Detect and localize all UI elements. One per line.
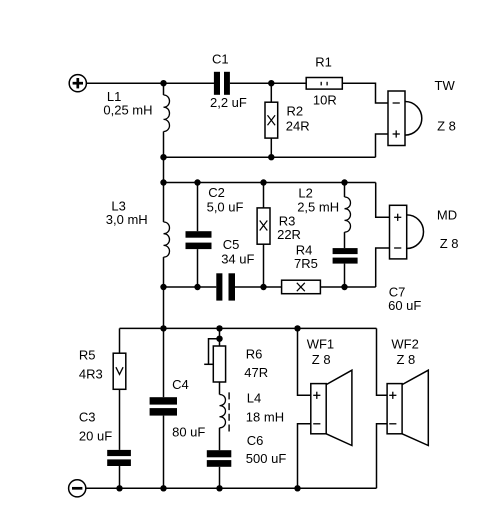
svg-text:C4: C4 <box>172 377 189 392</box>
node S junction <box>216 485 222 491</box>
wire R1 to TW corner <box>342 83 388 103</box>
wire C1 to node B <box>230 82 271 84</box>
svg-text:2,2 uF: 2,2 uF <box>210 95 247 110</box>
capacitor C5 <box>216 273 235 300</box>
resistor R6 <box>213 346 225 382</box>
node D junction <box>268 154 274 160</box>
wire rail6 <box>86 487 377 489</box>
wire WF2- down to rail6 <box>377 424 388 489</box>
node G junction <box>260 179 266 185</box>
svg-text:60 uF: 60 uF <box>388 298 421 313</box>
node O junction <box>294 325 300 331</box>
node L junction <box>341 284 347 290</box>
svg-text:R6: R6 <box>246 346 263 361</box>
svg-text:80 uF: 80 uF <box>172 425 205 440</box>
node H junction <box>341 179 347 185</box>
terminal + (positive input) <box>69 75 86 92</box>
inductor L1 <box>164 83 170 157</box>
resistor R3 <box>257 183 270 288</box>
svg-text:47R: 47R <box>244 365 268 380</box>
wire node A to C1 <box>164 82 215 84</box>
wire node N to R6 <box>219 328 221 346</box>
svg-text:4R3: 4R3 <box>79 366 103 381</box>
svg-text:5,0 uF: 5,0 uF <box>207 200 244 215</box>
wire rail5 <box>120 327 377 329</box>
svg-text:Z 8: Z 8 <box>397 352 416 367</box>
node N junction <box>216 325 222 331</box>
svg-text:Z 8: Z 8 <box>440 236 459 251</box>
inductor L4 <box>220 382 226 450</box>
capacitor C1 <box>214 72 230 95</box>
woofer WF1 <box>311 370 352 445</box>
node E junction <box>160 179 166 185</box>
capacitor C2 <box>186 183 212 288</box>
wire rail3 <box>164 182 376 184</box>
svg-text:C3: C3 <box>79 410 96 425</box>
svg-text:24R: 24R <box>286 119 310 134</box>
svg-text:WF2: WF2 <box>391 337 418 352</box>
wire rail4 left <box>164 286 217 288</box>
svg-text:L2: L2 <box>298 185 312 200</box>
node J junction <box>194 284 200 290</box>
node R junction <box>160 485 166 491</box>
svg-text:Z 8: Z 8 <box>437 118 456 133</box>
svg-text:20 uF: 20 uF <box>79 429 112 444</box>
svg-text:L1: L1 <box>107 89 121 104</box>
node M junction <box>160 325 166 331</box>
wire node I down to rail5 <box>163 287 165 328</box>
tweeter TW <box>388 91 422 146</box>
node B junction <box>268 80 274 86</box>
wire C5 to R4 <box>235 286 282 288</box>
svg-text:C6: C6 <box>247 433 264 448</box>
capacitor C7 <box>333 248 358 287</box>
svg-text:TW: TW <box>435 78 456 93</box>
svg-text:0,25 mH: 0,25 mH <box>103 103 152 118</box>
svg-text:22R: 22R <box>277 227 301 242</box>
wire R6 tap contact <box>204 363 213 365</box>
wire node O to WF1+ <box>298 328 311 395</box>
wire rail2 <box>164 156 376 158</box>
wire R6 tap arm <box>209 339 220 365</box>
woofer WF2 <box>387 370 428 445</box>
capacitor C3 <box>107 450 131 488</box>
inductor L2 <box>345 183 351 249</box>
svg-text:2,5 mH: 2,5 mH <box>297 200 339 215</box>
svg-text:34 uF: 34 uF <box>221 251 254 266</box>
midrange MD <box>390 205 424 259</box>
svg-text:L4: L4 <box>247 391 261 406</box>
svg-text:18 mH: 18 mH <box>246 410 284 425</box>
capacitor C4 <box>150 328 177 488</box>
inductor L3 <box>164 183 170 288</box>
terminal - (negative input) <box>69 480 86 497</box>
svg-text:3,0 mH: 3,0 mH <box>106 212 148 227</box>
wire node B to R1 <box>271 82 306 84</box>
svg-text:C2: C2 <box>208 185 225 200</box>
node K junction <box>260 284 266 290</box>
node T junction <box>294 485 300 491</box>
svg-text:7R5: 7R5 <box>294 256 318 271</box>
wire R4 to rail4 right <box>320 286 375 288</box>
svg-text:R2: R2 <box>287 103 304 118</box>
node P junction (R6 tap) <box>216 336 222 342</box>
svg-text:500 uF: 500 uF <box>246 451 287 466</box>
wire node C to node E <box>163 157 165 182</box>
node F junction <box>194 179 200 185</box>
resistor R1 <box>306 78 342 90</box>
resistor R2 <box>265 83 278 157</box>
svg-text:Z 8: Z 8 <box>312 352 331 367</box>
resistor R5 <box>113 328 126 450</box>
wire WF1- down to rail6 <box>298 424 311 489</box>
svg-text:R1: R1 <box>315 54 332 69</box>
svg-text:R5: R5 <box>79 347 96 362</box>
node C junction <box>160 154 166 160</box>
wire TW+ down to rail2 <box>376 134 389 157</box>
svg-text:WF1: WF1 <box>307 337 334 352</box>
capacitor C6 <box>207 450 232 488</box>
wire input+ to node A <box>86 82 163 84</box>
svg-text:MD: MD <box>437 208 457 223</box>
L4 core (dashed) <box>228 392 230 431</box>
wire rail5 to WF2+ <box>377 328 388 395</box>
node Q junction <box>116 485 122 491</box>
svg-text:10R: 10R <box>313 93 337 108</box>
node I junction <box>160 284 166 290</box>
svg-text:C1: C1 <box>212 52 229 67</box>
wire MD- down to rail4 <box>376 248 390 287</box>
svg-text:C5: C5 <box>223 237 240 252</box>
resistor R4 <box>282 280 321 294</box>
node A junction <box>160 80 166 86</box>
wire rail3 to MD+ <box>376 183 390 218</box>
